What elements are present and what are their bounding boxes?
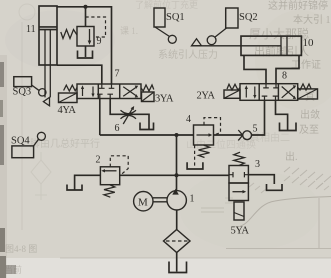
tank left of valve 2 — [67, 185, 82, 191]
wire: cylinder 11 rod-end port to valve 7 port A — [57, 65, 102, 84]
throttle valve 6 — [121, 106, 137, 124]
svg-text:这并前好锦停: 这并前好锦停 — [268, 0, 328, 12]
wire: valve 3 outlet to tank — [248, 175, 274, 184]
tank under filter — [169, 262, 187, 273]
shaft motor to pump — [153, 198, 167, 202]
svg-text:课 1.: 课 1. — [120, 26, 138, 36]
wire: pump line left to valve 2 and tank — [75, 175, 101, 189]
limit switch SQ3 — [14, 77, 46, 96]
left spring — [64, 85, 77, 91]
wire: check valve 5 to valve 8 port P — [252, 100, 265, 135]
relief valve 9 — [61, 17, 106, 46]
wire: filter to tank — [176, 253, 178, 272]
svg-text:出.: 出. — [285, 150, 298, 163]
svg-text:5YA: 5YA — [231, 226, 250, 237]
wire: riser pump to main line — [176, 135, 178, 191]
filter — [164, 230, 191, 253]
svg-text:了解前位丁充更: 了解前位丁充更 — [135, 0, 198, 10]
svg-text:系统引人压力: 系统引人压力 — [158, 48, 218, 61]
svg-text:2YA: 2YA — [197, 91, 216, 102]
node: junction to pump riser — [175, 133, 179, 137]
wire: valve 7 port P down to main line — [99, 99, 101, 136]
pump 1 — [167, 189, 186, 210]
svg-text:SQ2: SQ2 — [239, 12, 258, 23]
svg-text:2: 2 — [96, 155, 101, 166]
svg-text:4: 4 — [186, 114, 191, 125]
solenoid 5YA — [234, 202, 244, 220]
svg-text:SQ4: SQ4 — [11, 136, 30, 147]
wire: cylinder 10 left port to valve 8 port A — [244, 55, 266, 83]
svg-text:出敛: 出敛 — [300, 108, 320, 121]
tank under throttle 6 — [140, 123, 154, 130]
unloading valve 3 (2/2 solenoid) — [229, 152, 248, 220]
limit switch SQ1 — [154, 8, 176, 43]
wire: cylinder 11 cap port to valve 7 port B — [57, 7, 112, 84]
wire: valve 9 outlet — [85, 46, 87, 57]
trip dog on cylinder 10 rod — [192, 39, 202, 46]
motor M — [134, 192, 153, 211]
wire: branch down to relief valve 9 — [85, 7, 87, 27]
right spring — [141, 85, 154, 91]
svg-text:4YA: 4YA — [58, 105, 77, 116]
svg-text:M: M — [138, 197, 148, 209]
left page-edge scan marks (decorative) — [0, 62, 16, 278]
svg-text:6: 6 — [115, 123, 120, 134]
svg-text:SQ3: SQ3 — [13, 87, 32, 98]
left box arrows — [82, 88, 84, 97]
svg-text:脚由几总好平行: 脚由几总好平行 — [30, 137, 100, 150]
svg-text:图4-8 图: 图4-8 图 — [5, 244, 37, 254]
tank: valve 4 drain — [187, 162, 203, 169]
svg-text:5: 5 — [253, 124, 258, 135]
svg-text:10: 10 — [303, 37, 315, 49]
svg-text:厚小大那聪: 厚小大那聪 — [249, 27, 309, 41]
svg-text:真: 真 — [305, 90, 315, 103]
check valve 5 — [238, 130, 251, 140]
svg-text:1: 1 — [190, 194, 195, 205]
wire: valve 7 port T to throttle 6 and tank — [110, 99, 149, 130]
svg-text:9: 9 — [97, 36, 102, 47]
wire: main pressure line (y=135) — [100, 134, 194, 136]
wire: valve 8 port T to tank — [276, 100, 288, 130]
svg-text:7: 7 — [115, 69, 120, 80]
wire: pump suction to filter — [176, 210, 178, 230]
relief valve 2 — [100, 156, 128, 197]
tank right of valve 3 — [267, 184, 283, 190]
cylinder 10 — [192, 36, 302, 55]
centre box blocked ports — [99, 84, 114, 88]
svg-text:SQ1: SQ1 — [166, 12, 185, 23]
right box crossed arrows — [123, 87, 136, 97]
cylinder 11 — [39, 6, 57, 97]
wire: cylinder 10 right port to valve 8 port B — [276, 55, 299, 83]
sequence valve 4 — [194, 118, 221, 166]
svg-text:3: 3 — [255, 159, 260, 170]
node: junction on cap line — [84, 5, 88, 9]
limit switch SQ4 — [12, 132, 46, 157]
svg-text:11: 11 — [26, 24, 36, 35]
node: junction pump line — [175, 173, 179, 177]
directional valve 7 (3-pos 4-way) — [59, 84, 155, 103]
tank under valve 8 — [280, 123, 297, 131]
svg-text:本大引 1.: 本大引 1. — [293, 13, 331, 26]
wire: valve 4 to check valve 5 — [214, 134, 243, 136]
right solenoid 3YA — [142, 92, 155, 102]
limit switch SQ2 — [207, 8, 238, 45]
svg-text:8: 8 — [282, 71, 287, 82]
wire: pump line valve 2 to valve 3 — [120, 174, 229, 176]
left solenoid 4YA — [59, 93, 78, 103]
svg-text:及至: 及至 — [299, 124, 319, 136]
svg-text:3YA: 3YA — [155, 94, 174, 105]
directional valve 8 (3-pos 4-way) — [224, 84, 318, 101]
tank under valve 9 — [78, 51, 93, 59]
trip dog on cylinder 11 rod — [43, 97, 49, 105]
